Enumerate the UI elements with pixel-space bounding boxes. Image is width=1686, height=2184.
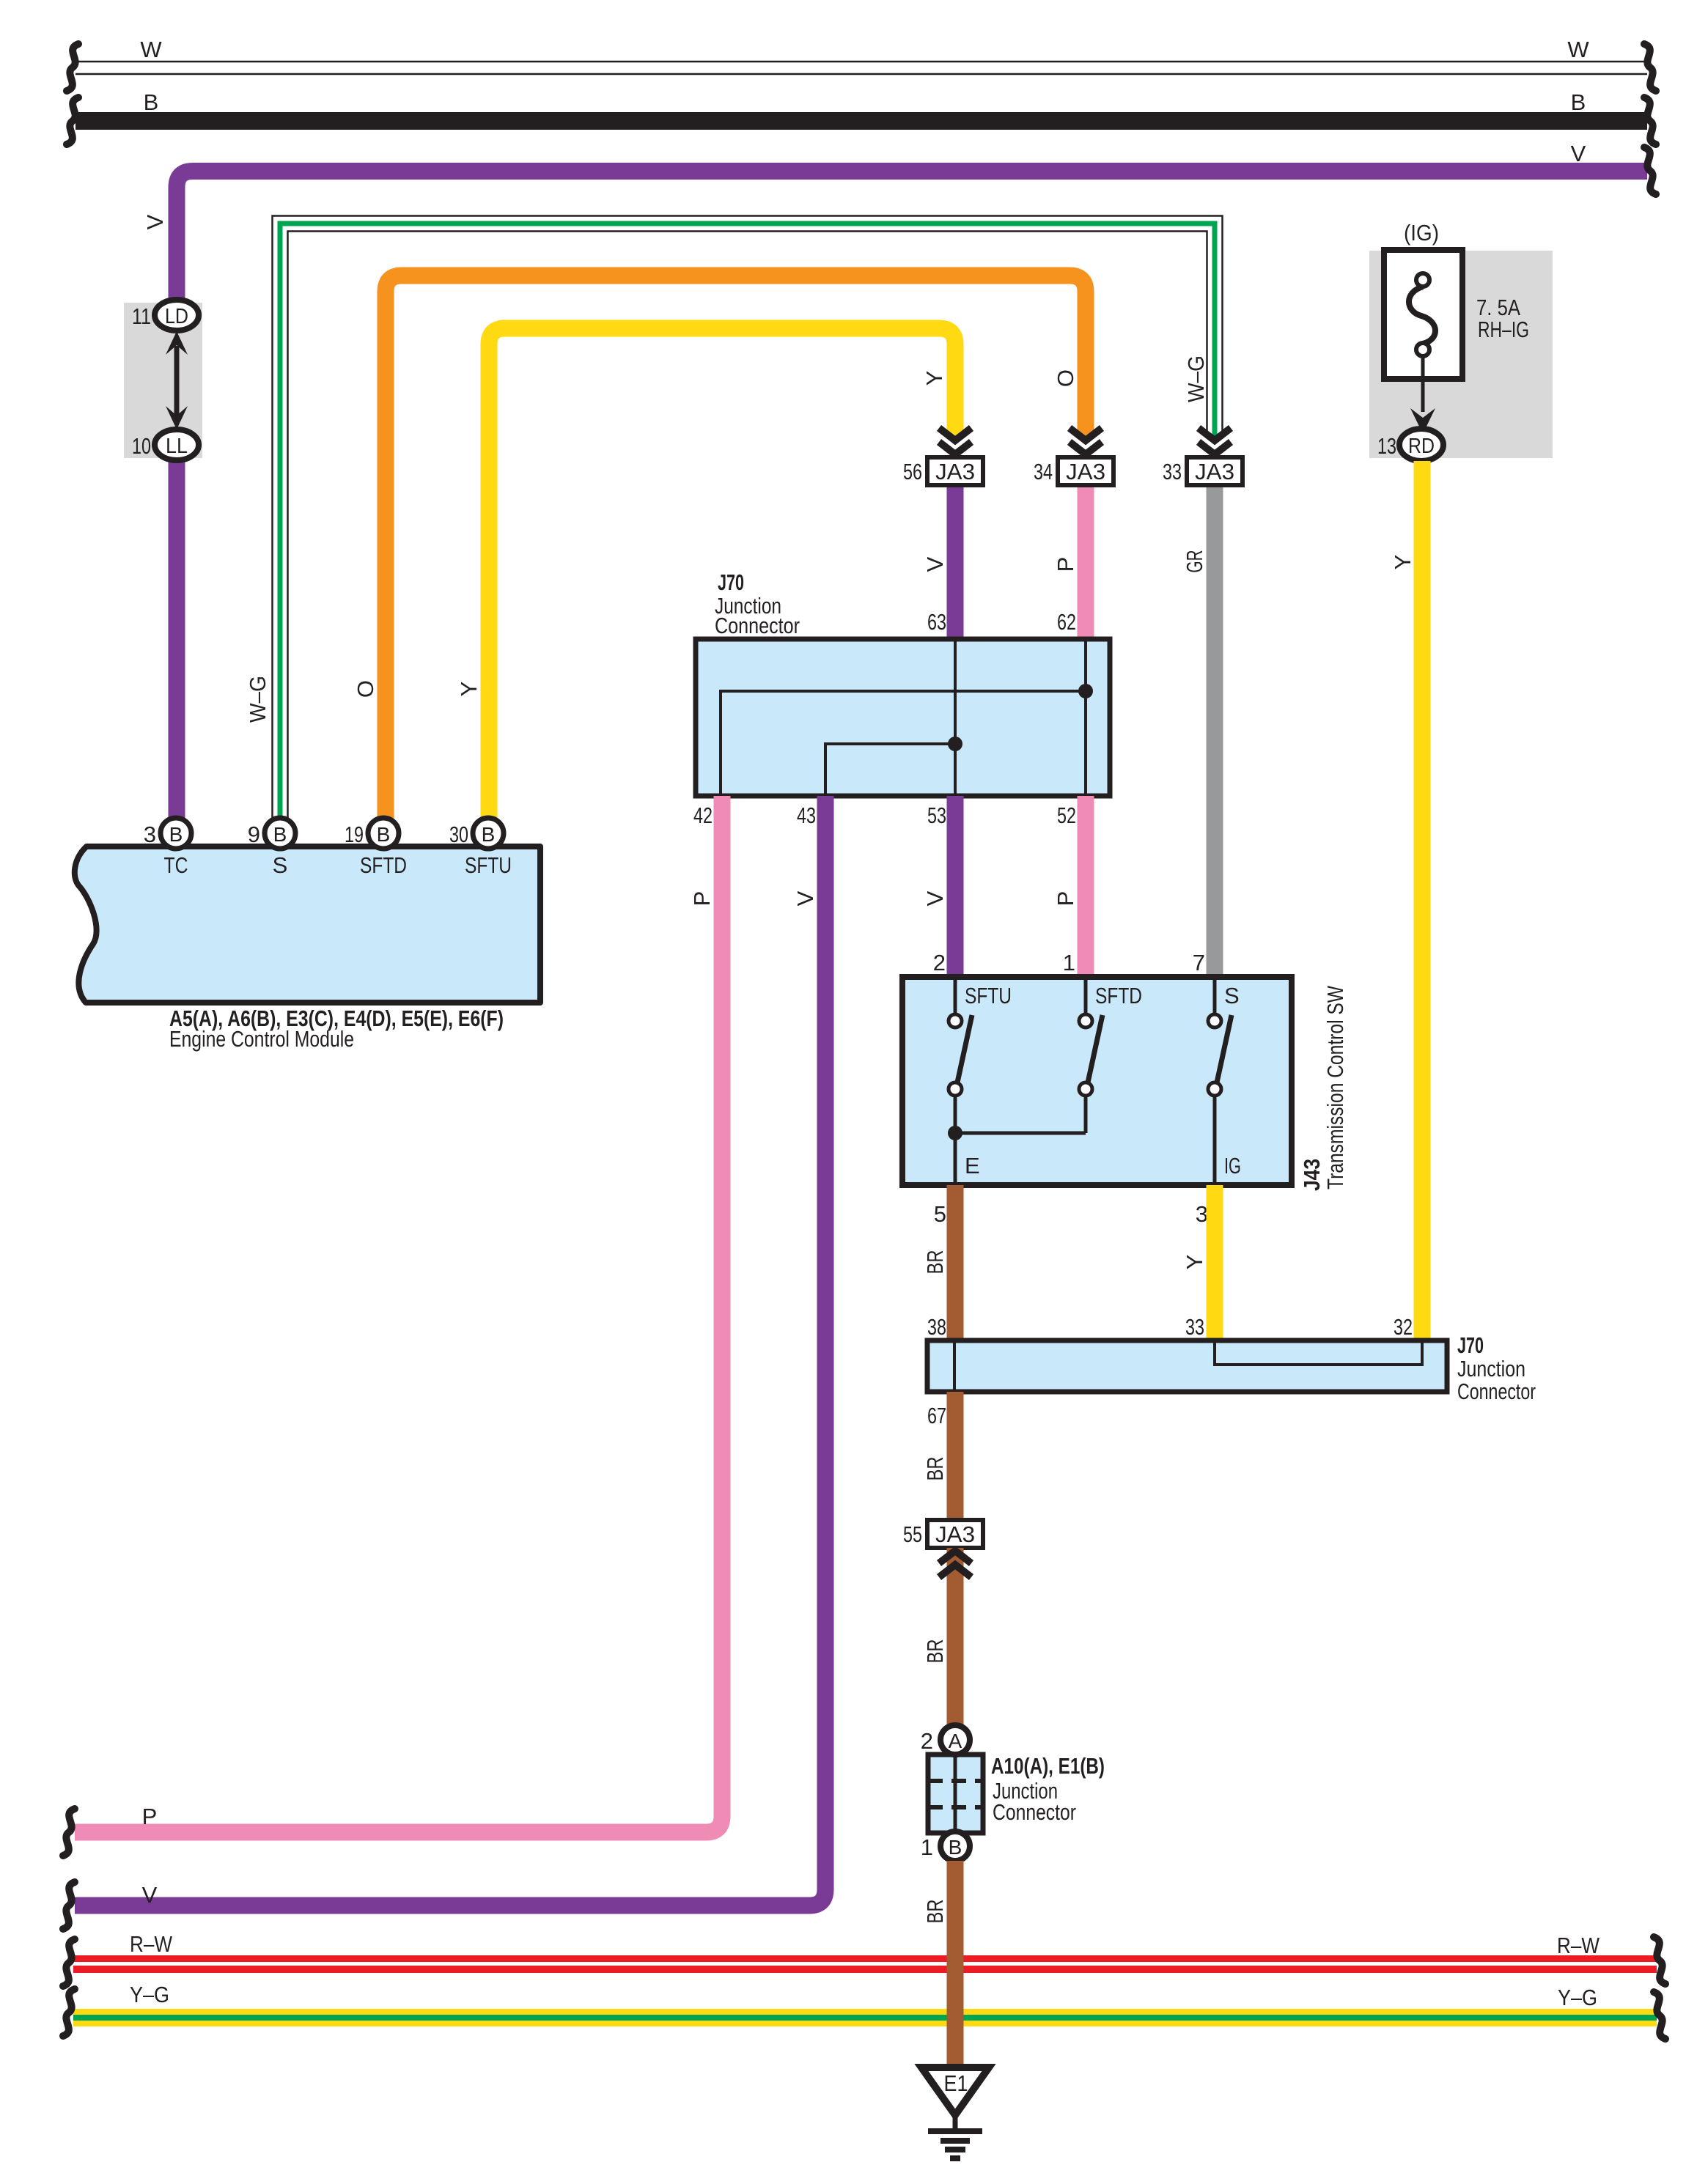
svg-text:P: P [689, 891, 715, 907]
J70 (lower) pin number labels [927, 1314, 1413, 1428]
svg-text:Y–G: Y–G [130, 1982, 169, 2007]
svg-text:33: 33 [1185, 1314, 1204, 1340]
svg-text:IG: IG [1224, 1153, 1241, 1178]
svg-text:A: A [949, 1730, 962, 1752]
svg-text:1: 1 [1063, 950, 1075, 975]
svg-text:53: 53 [927, 803, 946, 828]
svg-text:TC: TC [164, 852, 188, 878]
svg-text:RD: RD [1408, 435, 1435, 458]
node: junction dot on pin 62/52 line [1078, 684, 1093, 698]
connector arrow into 33 JA3 [1199, 428, 1231, 454]
switch S (pin 7 to IG) [1208, 977, 1241, 1185]
svg-text:SFTD: SFTD [360, 852, 407, 878]
svg-text:63: 63 [927, 609, 946, 635]
svg-text:9: 9 [248, 822, 260, 847]
wire BR brown: lower J70 pin 67 down to 55 JA3 [922, 1392, 955, 1521]
svg-text:S: S [1224, 983, 1240, 1008]
svg-text:Y: Y [1182, 1255, 1207, 1270]
svg-text:67: 67 [927, 1403, 946, 1428]
Engine Control Module body (torn left edge) [75, 846, 540, 1003]
svg-text:Y: Y [921, 371, 947, 386]
svg-text:Y–G: Y–G [1558, 1985, 1597, 2010]
svg-text:Engine Control Module: Engine Control Module [169, 1026, 354, 1052]
svg-text:SFTU: SFTU [465, 852, 512, 878]
svg-text:7: 7 [1193, 950, 1205, 975]
connector arrow out of 55 JA3 (pointing up) [939, 1551, 971, 1577]
connector box 34 JA3 [1034, 457, 1113, 485]
svg-text:W: W [1567, 37, 1589, 62]
svg-text:11: 11 [132, 303, 151, 329]
svg-text:S: S [273, 852, 288, 878]
svg-text:BR: BR [922, 1900, 948, 1924]
svg-text:V: V [792, 890, 818, 906]
ECM pin 3 circle (B) [144, 818, 191, 849]
svg-text:30: 30 [449, 822, 468, 847]
svg-text:Connector: Connector [715, 613, 800, 638]
svg-text:SFTU: SFTU [965, 983, 1012, 1008]
J43 pin number labels (top) [933, 950, 1205, 975]
fuse output lead with arrow into pin 13 [1410, 356, 1435, 434]
svg-text:E1: E1 [944, 2070, 968, 2096]
svg-text:B: B [273, 823, 287, 846]
svg-text:2: 2 [933, 950, 946, 975]
junction connector pin 1 B circle [921, 1831, 970, 1861]
connector pin 13 RD oval [1377, 429, 1443, 461]
svg-text:BR: BR [922, 1639, 948, 1664]
wire V violet: from right off-page, across top, down to LD oval (pin 11 side) [142, 141, 1656, 308]
wire GR gray: 33 JA3 down to J43 pin 7 (S) [1207, 485, 1223, 979]
svg-text:32: 32 [1394, 1314, 1413, 1340]
svg-text:Connector: Connector [1457, 1379, 1536, 1404]
svg-text:RH–IG: RH–IG [1478, 317, 1529, 342]
svg-text:B: B [482, 823, 496, 846]
svg-text:Junction: Junction [1457, 1356, 1525, 1381]
svg-text:(IG): (IG) [1404, 220, 1439, 246]
svg-text:10: 10 [132, 433, 151, 459]
J43 pin number labels (bottom) [934, 1201, 1208, 1227]
svg-text:2: 2 [921, 1728, 933, 1754]
svg-text:JA3: JA3 [1066, 459, 1105, 484]
connector box 55 JA3 [903, 1520, 983, 1548]
in-harness connector pin 10 LL oval [132, 429, 199, 460]
wire W-G (white w/ green stripe): ECM pin 9 up, across, down to 33 JA3 arrow [245, 216, 1223, 825]
svg-text:B: B [949, 1836, 962, 1859]
gray shield box around LD/LL connector pair [124, 303, 202, 458]
gray shield box around fuse RH-IG [1369, 251, 1553, 458]
svg-text:R–W: R–W [1557, 1933, 1600, 1958]
wire O orange: ECM pin 19 up, across, down to 34 JA3 arrow [353, 276, 1086, 824]
svg-text:3: 3 [1196, 1201, 1208, 1227]
svg-text:JA3: JA3 [1195, 459, 1234, 484]
wire V violet: J70 pin 53 down to J43 pin 2 [922, 796, 955, 979]
connector arrow into 56 JA3 [939, 428, 971, 454]
svg-text:SFTD: SFTD [1095, 983, 1142, 1008]
svg-text:W–G: W–G [245, 676, 270, 723]
wire P pink: J70 pin 52 down to J43 pin 1 [1053, 796, 1086, 979]
svg-text:V: V [1571, 141, 1586, 166]
connector arrow into 34 JA3 [1070, 428, 1102, 454]
ECM pin 30 circle (B) [449, 818, 504, 849]
switch SFTU (pin 2 to E) [949, 977, 1012, 1185]
wire R-W red/white: off-page both sides [63, 1931, 1665, 1986]
wire V violet segment: LL oval down to ECM pin 3 (TC) [169, 452, 185, 824]
svg-text:P: P [1053, 557, 1078, 572]
wire BR brown: junction connector B down to ground E1 [922, 1861, 955, 2068]
node: junction dot on pin 63/53 line [948, 737, 962, 751]
connector box 33 JA3 [1163, 457, 1243, 485]
J70 (lower) title [1457, 1332, 1536, 1404]
wire BR brown: J43 pin 5 (E) down to lower J70 pin 38 [922, 1185, 955, 1343]
junction connector A10(A),E1(B) body [928, 1755, 983, 1833]
svg-text:JA3: JA3 [935, 1521, 975, 1547]
svg-text:A10(A), E1(B): A10(A), E1(B) [991, 1753, 1105, 1779]
svg-text:W: W [140, 37, 162, 62]
fuse rating caption 7.5A RH-IG [1476, 295, 1529, 342]
svg-text:V: V [922, 890, 948, 906]
svg-text:3: 3 [144, 822, 156, 847]
J70 (upper) title [715, 569, 800, 638]
transmission control switch J43 body [902, 977, 1292, 1185]
fuse 7.5A RH-IG symbol box [1384, 250, 1462, 379]
svg-text:33: 33 [1163, 459, 1182, 484]
wire B (top black wire, off-page both sides) [67, 89, 1656, 144]
junction connector caption [991, 1753, 1105, 1825]
wire W (top white wire, off-page both sides) [67, 37, 1656, 91]
svg-text:13: 13 [1377, 433, 1396, 459]
wire Y-G yellow/green: off-page both sides [63, 1982, 1665, 2039]
in-harness connector pin 11 LD oval [132, 300, 199, 331]
svg-text:LD: LD [165, 305, 188, 328]
svg-text:J70: J70 [718, 569, 744, 595]
svg-text:B: B [377, 823, 391, 846]
svg-text:38: 38 [927, 1314, 946, 1340]
svg-text:J70: J70 [1457, 1332, 1484, 1358]
svg-text:BR: BR [922, 1250, 948, 1274]
svg-text:O: O [1053, 369, 1078, 387]
svg-text:1: 1 [921, 1834, 933, 1860]
svg-text:J43: J43 [1299, 1159, 1325, 1191]
junction connector J70 (lower) body [927, 1340, 1447, 1392]
svg-text:56: 56 [903, 459, 922, 484]
svg-text:W–G: W–G [1183, 355, 1209, 402]
ECM pin names [164, 852, 512, 878]
svg-text:55: 55 [903, 1521, 922, 1547]
svg-text:Transmission Control SW: Transmission Control SW [1322, 985, 1348, 1189]
junction connector pin 2 A circle [921, 1725, 970, 1755]
wire V violet: J70 pin 43 down, left to off-page (bottom left) [63, 796, 825, 1929]
wire P pink: 34 JA3 down to J70 pin 62 [1078, 485, 1094, 641]
svg-text:B: B [144, 89, 159, 115]
svg-text:Y: Y [1390, 555, 1416, 570]
J43 rotated title [1299, 985, 1348, 1191]
svg-text:V: V [142, 214, 168, 229]
svg-text:E: E [965, 1153, 980, 1178]
wire Y yellow: pin 13 RD down to lower J70 pin 32 [1390, 461, 1422, 1343]
svg-text:GR: GR [1182, 550, 1207, 573]
svg-text:JA3: JA3 [935, 459, 975, 484]
svg-text:V: V [922, 556, 948, 572]
wire P pink: J70 pin 42 down, left to off-page (bottom left) [63, 796, 722, 1856]
svg-text:42: 42 [693, 803, 713, 828]
junction connector J70 (upper) body [696, 639, 1110, 796]
svg-text:5: 5 [934, 1201, 946, 1227]
wire Y yellow: ECM pin 30 up, across, down to 56 JA3 arrow [456, 328, 955, 824]
svg-text:BR: BR [922, 1457, 948, 1481]
svg-text:62: 62 [1057, 609, 1076, 635]
node: junction dot at E leg [948, 1126, 962, 1140]
svg-text:43: 43 [797, 803, 816, 828]
ECM caption [169, 1006, 504, 1052]
svg-text:B: B [169, 823, 183, 846]
svg-text:Y: Y [456, 682, 482, 697]
J70 (upper) pin number labels [693, 609, 1076, 828]
connector box 56 JA3 [903, 457, 983, 485]
svg-text:Connector: Connector [993, 1799, 1076, 1825]
ground E1 [921, 2067, 989, 2158]
svg-text:P: P [142, 1804, 158, 1829]
switch SFTD (pin 1) [955, 977, 1142, 1133]
svg-text:O: O [353, 680, 378, 698]
svg-text:R–W: R–W [130, 1931, 173, 1957]
double-headed arrow between LD and LL [166, 331, 188, 429]
wire BR brown: 55 JA3 down to junction connector A [922, 1548, 955, 1740]
svg-text:LL: LL [166, 435, 188, 458]
wire Y yellow: J43 pin 3 (IG) down to lower J70 pin 33 [1182, 1185, 1215, 1343]
svg-text:V: V [142, 1882, 158, 1908]
svg-text:B: B [1571, 89, 1586, 115]
svg-text:52: 52 [1057, 803, 1076, 828]
ECM pin 19 circle (B) [345, 818, 399, 849]
svg-text:19: 19 [345, 822, 364, 847]
ECM pin 9 circle (B) [248, 818, 295, 849]
svg-text:34: 34 [1034, 459, 1053, 484]
wire V violet: 56 JA3 down to J70 pin 63 [947, 485, 964, 641]
svg-text:P: P [1053, 891, 1078, 907]
